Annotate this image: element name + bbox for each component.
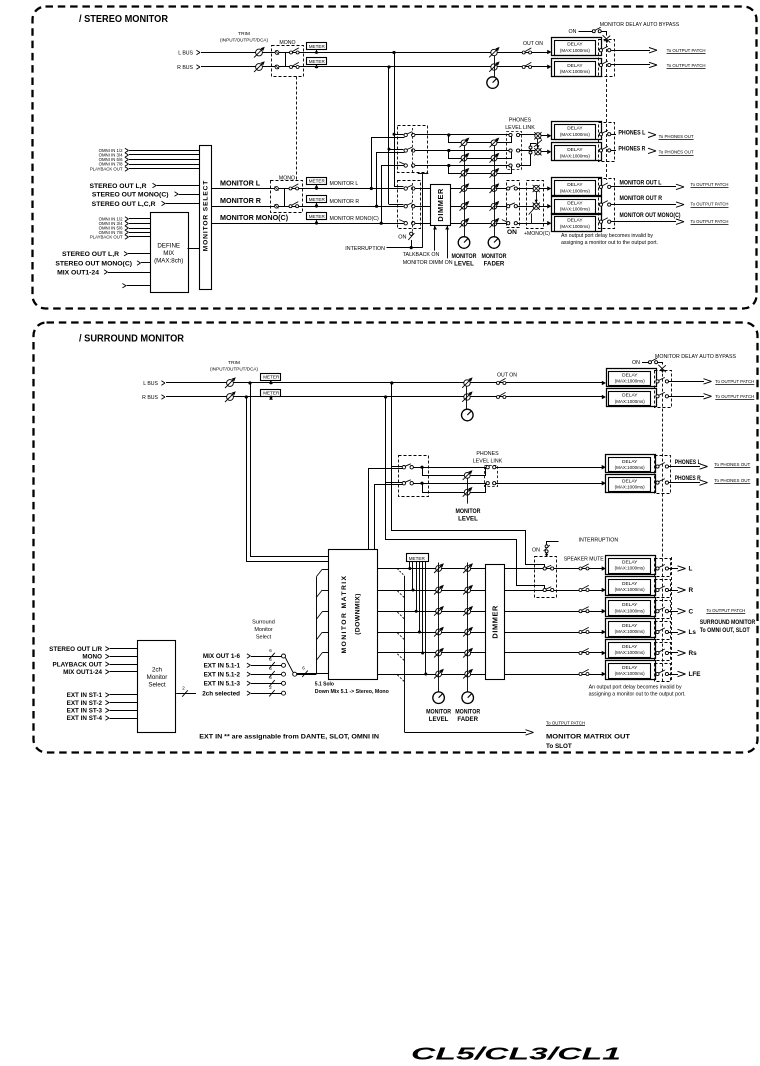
svg-text:METER: METER: [309, 197, 326, 202]
svg-text:MONITOR R: MONITOR R: [330, 199, 360, 205]
fader gang wire: [494, 146, 496, 237]
mono sum out R: [533, 203, 539, 209]
svg-text:(MAX:1000ms): (MAX:1000ms): [560, 153, 591, 158]
phones fader knob L: [491, 140, 497, 146]
matrix out wire R: [669, 590, 679, 592]
meter monitor MONO: [307, 213, 327, 220]
meter monitor R: [307, 196, 327, 203]
svg-text:MONO: MONO: [279, 40, 295, 46]
svg-text:DELAY: DELAY: [567, 42, 583, 48]
mono node R: [275, 204, 279, 208]
phones feed riser R s: [385, 397, 387, 483]
svg-text:SPEAKER MUTE: SPEAKER MUTE: [564, 556, 604, 562]
svg-text:DELAY: DELAY: [622, 478, 638, 484]
bus level gang wire: [494, 56, 496, 77]
matrix bypass switch LFE: [656, 672, 659, 675]
svg-text:To OUTPUT PATCH: To OUTPUT PATCH: [667, 63, 706, 68]
riser monitor R to phones: [375, 205, 378, 208]
monitor L wire after dimmer: [450, 188, 509, 190]
svg-text:PLAYBACK OUT: PLAYBACK OUT: [90, 167, 123, 172]
svg-text:To OMNI OUT, SLOT: To OMNI OUT, SLOT: [700, 627, 750, 634]
matrix fader knobs: [465, 566, 471, 572]
svg-text:EXT IN ** are assignable from: EXT IN ** are assignable from DANTE, SLO…: [199, 734, 379, 741]
svg-text:To PHONES OUT: To PHONES OUT: [714, 478, 750, 483]
MONO switch box (bus): [272, 46, 304, 77]
matrix bypass switch R: [656, 588, 659, 591]
stereo monitor section frame: [33, 7, 757, 309]
delay block phones R s: [602, 481, 606, 486]
delay block monitor MONO: [531, 223, 547, 225]
phones bypass dashed box: [599, 123, 615, 162]
svg-text:DELAY: DELAY: [622, 602, 638, 608]
matrix bypass dashed L: [655, 559, 671, 577]
svg-text:MONITOR MATRIX: MONITOR MATRIX: [341, 574, 348, 653]
svg-text:MIX OUT 1-6: MIX OUT 1-6: [203, 653, 241, 660]
monitor out bypass switch R: [599, 203, 602, 206]
svg-text:assigning a monitor out to the: assigning a monitor out to the output po…: [561, 240, 658, 246]
phones knob tap R s: [420, 482, 423, 485]
svg-text:STEREO OUT MONO(C): STEREO OUT MONO(C): [92, 191, 169, 198]
svg-text:STEREO OUT L/R: STEREO OUT L/R: [49, 646, 102, 653]
surround monitor section frame: [34, 323, 758, 753]
phones wire L s: [413, 467, 486, 469]
svg-text:EXT IN 5.1-1: EXT IN 5.1-1: [204, 663, 241, 670]
delay block out 6 s: [602, 672, 606, 677]
phones bypass switch L s: [656, 465, 659, 468]
svg-text:An output port delay becomes i: An output port delay becomes invalid by: [589, 685, 683, 691]
svg-text:ON: ON: [632, 360, 640, 366]
bypass switch bus L s: [656, 380, 659, 383]
selector arm: [285, 658, 293, 673]
meter box L bus: [307, 43, 327, 50]
svg-text:C: C: [689, 608, 694, 615]
svg-text:PHONES R: PHONES R: [618, 146, 645, 153]
svg-text:(MAX:1000ms): (MAX:1000ms): [560, 188, 591, 193]
svg-text:(MAX:1000ms): (MAX:1000ms): [615, 671, 646, 676]
svg-text:METER: METER: [309, 44, 326, 49]
wire dimmer to on2 R: [496, 206, 507, 208]
svg-text:PHONES R: PHONES R: [675, 475, 701, 482]
mono to phones riser: [520, 144, 537, 166]
2ch select out wire: [176, 693, 196, 695]
svg-text:+MONO(C): +MONO(C): [524, 231, 550, 237]
svg-text:EXT IN ST-2: EXT IN ST-2: [67, 700, 103, 707]
svg-text:DELAY: DELAY: [622, 373, 638, 379]
svg-text:DEFINE: DEFINE: [157, 243, 180, 250]
speaker mute switch L: [543, 567, 546, 570]
mono switch L: [289, 187, 292, 190]
phones fader knob MONO: [491, 170, 497, 176]
svg-text:CL5/CL3/CL1: CL5/CL3/CL1: [411, 1044, 621, 1061]
auto bypass dashed control wire: [606, 44, 608, 180]
bus level control knob: [487, 77, 499, 89]
monitor L wire: [212, 188, 404, 190]
phones through wire R: [415, 150, 509, 152]
svg-text:ON: ON: [569, 29, 577, 35]
matrix rows after dimmer: [504, 568, 604, 570]
svg-text:DELAY: DELAY: [567, 147, 583, 153]
matrix bypass switch Rs: [656, 651, 659, 654]
svg-text:STEREO OUT L,R: STEREO OUT L,R: [62, 251, 119, 258]
monitor MONO wire: [212, 223, 404, 225]
matrix input bracket: [316, 577, 318, 674]
svg-text:MONITOR MONO(C): MONITOR MONO(C): [220, 213, 289, 222]
matrix rows wires: [377, 568, 485, 570]
level link switches s: [486, 466, 489, 469]
phones level knob L s: [464, 473, 470, 479]
monitor MONO wire to dimmer: [415, 223, 431, 225]
trim knob R: [256, 64, 263, 71]
phones wire R s: [413, 483, 486, 485]
svg-text:/ STEREO MONITOR: / STEREO MONITOR: [79, 13, 168, 25]
phones level knob R s: [464, 489, 470, 495]
svg-text:To OUTPUT PATCH: To OUTPUT PATCH: [691, 182, 729, 187]
svg-text:METER: METER: [309, 214, 326, 219]
level gang wire: [464, 146, 466, 237]
svg-text:OUT ON: OUT ON: [497, 373, 517, 379]
phones bypass switch R s: [656, 481, 659, 484]
svg-text:MONITOR: MONITOR: [456, 508, 482, 515]
monitor matrix box: [329, 550, 378, 680]
svg-text:An output port delay becomes i: An output port delay becomes invalid by: [561, 233, 654, 239]
svg-text:METER: METER: [409, 556, 426, 561]
svg-text:MONITOR DELAY AUTO BYPASS: MONITOR DELAY AUTO BYPASS: [655, 354, 737, 360]
define mix to monitor select wire: [188, 248, 200, 250]
svg-text:MIX OUT1-24: MIX OUT1-24: [57, 269, 99, 276]
phones knob tap L: [447, 133, 450, 136]
svg-text:DELAY: DELAY: [622, 459, 638, 465]
phones level link switches: [509, 133, 512, 136]
output on switch R: [404, 205, 407, 208]
speaker mute switch R: [543, 588, 546, 591]
svg-text:Monitor: Monitor: [254, 627, 273, 633]
auto bypass cross switch: [603, 35, 611, 42]
matrix level knobs: [436, 566, 442, 572]
svg-text:OUT ON: OUT ON: [523, 41, 543, 47]
svg-text:(MAX:1000ms): (MAX:1000ms): [615, 566, 646, 571]
phones bypass switch R: [599, 149, 602, 152]
wire on2 to mono R: [517, 206, 533, 208]
svg-text:To OUTPUT PATCH: To OUTPUT PATCH: [715, 379, 754, 384]
svg-text:(MAX:1000ms): (MAX:1000ms): [615, 485, 646, 490]
monitor dimm on control: [447, 226, 449, 259]
svg-text:(MAX:1000ms): (MAX:1000ms): [560, 48, 591, 53]
wire dimmer to on2 L: [496, 188, 507, 190]
matrix riser to phones R: [375, 485, 403, 550]
svg-text:MONITOR DIMM ON: MONITOR DIMM ON: [403, 260, 453, 266]
delay block out 5 s: [602, 651, 606, 656]
monitor out fader knob R: [491, 203, 497, 209]
svg-text:MONITOR L: MONITOR L: [220, 178, 261, 187]
svg-text:MONITOR MATRIX OUT: MONITOR MATRIX OUT: [546, 733, 630, 740]
svg-text:METER: METER: [263, 375, 280, 380]
phones through wire L: [415, 134, 509, 136]
svg-text:FADER: FADER: [484, 261, 505, 268]
bus level control knob s: [462, 409, 474, 421]
monitor MONO wire after dimmer: [450, 223, 509, 225]
L BUS wire: [201, 52, 550, 54]
bus monitor level knob R: [491, 64, 497, 70]
svg-text:LEVEL: LEVEL: [454, 261, 474, 268]
monitor out fader knob MONO: [491, 220, 497, 226]
mono link dashed wire: [296, 77, 298, 182]
phones bypass switch L: [599, 133, 602, 136]
dimmer box surround: [486, 565, 505, 680]
svg-text:DELAY: DELAY: [567, 200, 583, 206]
svg-text:EXT IN 5.1-2: EXT IN 5.1-2: [204, 671, 241, 678]
matrix fader knob big: [462, 692, 474, 704]
delay bypass switch bus L: [599, 49, 602, 52]
svg-text:Select: Select: [256, 634, 272, 640]
bus out wire R: [611, 64, 650, 66]
monitor out bypass switch L: [599, 185, 602, 188]
svg-text:EXT IN ST-1: EXT IN ST-1: [67, 692, 103, 699]
mono sum out L: [533, 185, 539, 191]
phones out L s: [669, 466, 701, 468]
monitor out fader knob L: [491, 186, 497, 192]
mono bridge: [279, 189, 285, 207]
svg-text:MONITOR: MONITOR: [426, 708, 452, 715]
phones feed riser L s: [391, 383, 393, 467]
delay block phones L s: [602, 465, 606, 470]
svg-text:MONO: MONO: [279, 176, 295, 182]
phones on-switch dashed box: [398, 126, 428, 173]
R BUS wire: [201, 66, 550, 68]
row switches after dimmer: [579, 567, 582, 570]
monitor fader knob: [488, 237, 500, 249]
mono add switch: [531, 214, 533, 224]
phones on switch MONO: [404, 164, 407, 167]
svg-text:LEVEL LINK: LEVEL LINK: [505, 125, 535, 131]
phones level knob R: [461, 155, 467, 161]
wire on2 to mono L: [517, 188, 533, 190]
svg-text:L: L: [689, 566, 693, 573]
svg-text:Monitor: Monitor: [147, 674, 168, 681]
monitor out level knob MONO: [461, 220, 467, 226]
matrix out wire C: [669, 611, 679, 613]
delay bypass switch bus R: [599, 63, 602, 66]
monitor out bypass switch MONO: [599, 220, 602, 223]
matrix fader gang: [467, 563, 469, 692]
speaker mute box: [535, 557, 557, 598]
monitor out wire L: [611, 186, 676, 188]
monitor select box: [200, 146, 212, 290]
svg-text:Down Mix 5.1 -> Stereo, Mono: Down Mix 5.1 -> Stereo, Mono: [315, 689, 389, 695]
phones level gang s: [467, 478, 469, 503]
svg-text:Ls: Ls: [689, 629, 697, 636]
wire dimmer to on2 M: [496, 223, 507, 225]
interrupt feed R s: [386, 483, 545, 589]
svg-text:LEVEL: LEVEL: [458, 516, 478, 523]
trim knob L: [256, 49, 263, 56]
define mix box: [151, 213, 189, 293]
svg-text:EXT IN ST-3: EXT IN ST-3: [67, 708, 103, 715]
svg-text:DELAY: DELAY: [622, 581, 638, 587]
delay block bus R s: [602, 395, 606, 400]
svg-text:To PHONES OUT: To PHONES OUT: [659, 134, 694, 139]
svg-text:PLAYBACK OUT: PLAYBACK OUT: [90, 235, 123, 240]
svg-text:To OUTPUT PATCH: To OUTPUT PATCH: [691, 202, 729, 207]
svg-text:ON: ON: [398, 235, 406, 241]
MONO box (monitor): [271, 181, 303, 213]
svg-text:(MAX:1000ms): (MAX:1000ms): [615, 465, 646, 470]
monitor out wire MONO: [611, 221, 676, 223]
matrix out wire LFE: [669, 674, 679, 676]
out on switch R: [522, 66, 525, 69]
phones wire R to delay s: [496, 483, 604, 485]
svg-text:LEVEL: LEVEL: [429, 716, 449, 723]
svg-text:DELAY: DELAY: [622, 665, 638, 671]
meter monitor L: [307, 178, 327, 185]
phones sum L: [535, 133, 541, 139]
monitor R wire to dimmer: [415, 206, 431, 208]
matrix slash marks: [397, 591, 404, 598]
bus out wire R s: [669, 396, 705, 398]
delay block bus L s: [602, 381, 606, 386]
delay block phones L: [547, 133, 551, 138]
phones level knob MONO: [461, 170, 467, 176]
bus L phones feed wire: [394, 134, 404, 136]
matrix bypass dashed Rs: [655, 643, 671, 661]
auto bypass cross s: [658, 365, 666, 372]
meter box R bus: [307, 58, 327, 65]
delay bypass dashed box bus: [599, 40, 615, 77]
matrix out wire Rs: [669, 652, 679, 654]
svg-text:To PHONES OUT: To PHONES OUT: [659, 150, 694, 155]
svg-text:FADER: FADER: [457, 716, 478, 723]
phones through wire MONO: [415, 165, 509, 167]
svg-text:LFE: LFE: [689, 671, 702, 678]
bus R phones feed wire: [389, 149, 404, 151]
phones gang dashed: [412, 128, 414, 172]
phones bypass dashed s: [655, 456, 671, 494]
matrix bypass dashed C: [655, 601, 671, 619]
svg-text:Select: Select: [148, 682, 165, 689]
monitor L wire to dimmer: [415, 188, 431, 190]
+MONO(C) dashed box: [527, 181, 544, 229]
matrix out wire bottom: [405, 732, 526, 734]
out on switch L s: [497, 382, 500, 385]
svg-text:PHONES: PHONES: [509, 118, 532, 124]
matrix meter taps: [409, 561, 411, 568]
bus level knob R s: [464, 394, 470, 400]
svg-text:SURROUND MONITOR: SURROUND MONITOR: [700, 619, 756, 626]
svg-text:MONITOR: MONITOR: [455, 708, 481, 715]
monitor level knob: [458, 237, 470, 249]
matrix level knob big: [433, 692, 445, 704]
svg-text:MONITOR: MONITOR: [482, 253, 508, 260]
matrix out wire L: [669, 568, 679, 570]
2ch monitor select box: [138, 641, 176, 733]
monitor R wire: [212, 206, 404, 208]
bus level knob L s: [464, 380, 470, 386]
svg-text:(MAX:1000ms): (MAX:1000ms): [560, 69, 591, 74]
svg-text:/ SURROUND MONITOR: / SURROUND MONITOR: [79, 333, 184, 345]
bus out wire L: [611, 50, 650, 52]
svg-text:To PHONES OUT: To PHONES OUT: [714, 462, 750, 467]
delay block bus R: [547, 64, 551, 69]
svg-text:MONO: MONO: [82, 654, 102, 661]
auto bypass dashed wire s: [662, 374, 664, 681]
phones knob tap MONO: [447, 164, 450, 167]
delay block out 3 s: [602, 609, 606, 614]
matrix bypass dashed LFE: [655, 664, 671, 682]
matrix bypass switch C: [656, 610, 659, 613]
bypass dashed box bus s: [655, 371, 672, 408]
svg-text:(INPUT/OUTPUT/DCA): (INPUT/OUTPUT/DCA): [210, 367, 258, 373]
svg-text:DELAY: DELAY: [622, 644, 638, 650]
bus L tap junction: [392, 51, 395, 54]
svg-text:To OUTPUT PATCH: To OUTPUT PATCH: [546, 720, 585, 725]
R BUS wire s: [166, 396, 604, 398]
matrix input wire: [297, 673, 329, 675]
output on-switch dashed box: [398, 181, 421, 229]
svg-text:DELAY: DELAY: [567, 182, 583, 188]
svg-text:METER: METER: [309, 59, 326, 64]
phones level knob L: [461, 140, 467, 146]
svg-text:EXT IN ST-4: EXT IN ST-4: [67, 715, 103, 722]
second bypass dashed wire: [671, 557, 673, 681]
svg-text:STEREO OUT L,C,R: STEREO OUT L,C,R: [92, 201, 156, 208]
svg-text:R: R: [689, 587, 694, 594]
mono sum node L: [275, 51, 279, 55]
svg-text:To SLOT: To SLOT: [546, 743, 572, 750]
svg-text:METER: METER: [263, 391, 280, 396]
svg-text:PHONES L: PHONES L: [618, 130, 645, 137]
selector out wire: [297, 673, 329, 675]
mono bridge wire: [279, 53, 286, 67]
matrix bypass dashed R: [655, 580, 671, 598]
svg-text:To OUTPUT PATCH: To OUTPUT PATCH: [706, 608, 745, 613]
delay block out 1 s: [602, 566, 606, 571]
phones R wire to sum: [520, 150, 535, 152]
svg-text:L BUS: L BUS: [178, 51, 193, 57]
define mix spare input: [122, 284, 126, 286]
out on switch L: [522, 51, 525, 54]
meter box matrix: [407, 554, 429, 562]
svg-text:(MAX:1000ms): (MAX:1000ms): [560, 224, 591, 229]
svg-text:STEREO OUT L,R: STEREO OUT L,R: [89, 183, 146, 190]
svg-text:MIX OUT1-24: MIX OUT1-24: [63, 669, 102, 676]
svg-text:To OUTPUT PATCH: To OUTPUT PATCH: [691, 219, 729, 224]
monitor out bypass dashed box: [599, 179, 615, 229]
svg-text:(MAX:1000ms): (MAX:1000ms): [615, 587, 646, 592]
svg-text:2ch: 2ch: [152, 667, 163, 674]
svg-text:STEREO OUT MONO(C): STEREO OUT MONO(C): [55, 260, 132, 267]
delay block phones R: [547, 149, 551, 154]
phones out R s: [669, 482, 701, 484]
svg-text:MONITOR L: MONITOR L: [330, 181, 359, 187]
delay block monitor L: [539, 188, 547, 190]
svg-text:TRIM: TRIM: [238, 31, 250, 37]
svg-text:MONITOR MONO(C): MONITOR MONO(C): [330, 216, 379, 222]
matrix bypass switch Ls: [656, 630, 659, 633]
talkback on control: [434, 226, 436, 251]
bus L drop wire: [394, 53, 396, 187]
dimmer box stereo: [431, 185, 451, 226]
monitor out level knob R: [461, 203, 467, 209]
phones L out wire: [611, 134, 618, 136]
bus out wire L s: [669, 381, 705, 383]
phones switch L s: [402, 466, 405, 469]
phones switch R s: [402, 482, 405, 485]
svg-text:To OUTPUT PATCH: To OUTPUT PATCH: [667, 48, 706, 53]
phones on switch R: [404, 149, 407, 152]
svg-text:ON: ON: [507, 229, 517, 236]
bus R drop wire: [388, 67, 390, 204]
svg-text:2ch selected: 2ch selected: [202, 690, 240, 697]
matrix out tap: [397, 569, 405, 577]
